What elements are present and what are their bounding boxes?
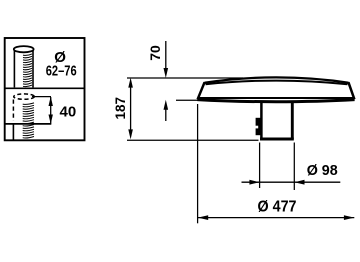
base bottom — [260, 138, 294, 141]
svg-text:40: 40 — [60, 103, 77, 120]
svg-text:Ø 477: Ø 477 — [258, 198, 297, 215]
terminal tab on base — [255, 118, 262, 135]
extension line lamp underside (y=100.2) — [176, 99, 199, 101]
extension line left tip vertical (x=197.6) — [197, 104, 199, 223]
inset box frame — [5, 38, 85, 140]
base left side — [260, 103, 263, 139]
extension line base left vertical — [259, 143, 261, 189]
luminaire right edge — [348, 82, 354, 99]
extension line base right vertical — [293, 143, 295, 191]
dimension Ø98 — [242, 180, 341, 185]
pole top line (bottom cell) — [5, 123, 52, 125]
dimension 187 — [128, 78, 133, 140]
luminaire left edge — [198, 82, 205, 99]
spigot threads (bottom cell) — [23, 103, 34, 138]
spigot threads (top cell) — [23, 54, 32, 87]
dimension 70 — [164, 41, 169, 121]
svg-text:187: 187 — [113, 97, 128, 120]
base right side — [291, 103, 294, 139]
luminaire bowl curve — [197, 100, 354, 102]
luminaire rim chord — [198, 97, 355, 99]
extension line top (y=78) — [127, 77, 243, 79]
luminaire canopy outer curve — [205, 77, 349, 82]
svg-text:Ø 98: Ø 98 — [307, 163, 338, 179]
extension line bottom (y=140.3) — [127, 139, 259, 141]
spigot side view (top cell) — [14, 46, 34, 87]
dimension 40 — [32, 96, 53, 124]
svg-text:62–76: 62–76 — [46, 64, 77, 80]
svg-text:70: 70 — [147, 45, 163, 61]
luminaire canopy inner line — [206, 81, 348, 85]
spigot hidden view (bottom cell) — [13, 94, 34, 140]
dimension Ø477 — [198, 215, 354, 220]
